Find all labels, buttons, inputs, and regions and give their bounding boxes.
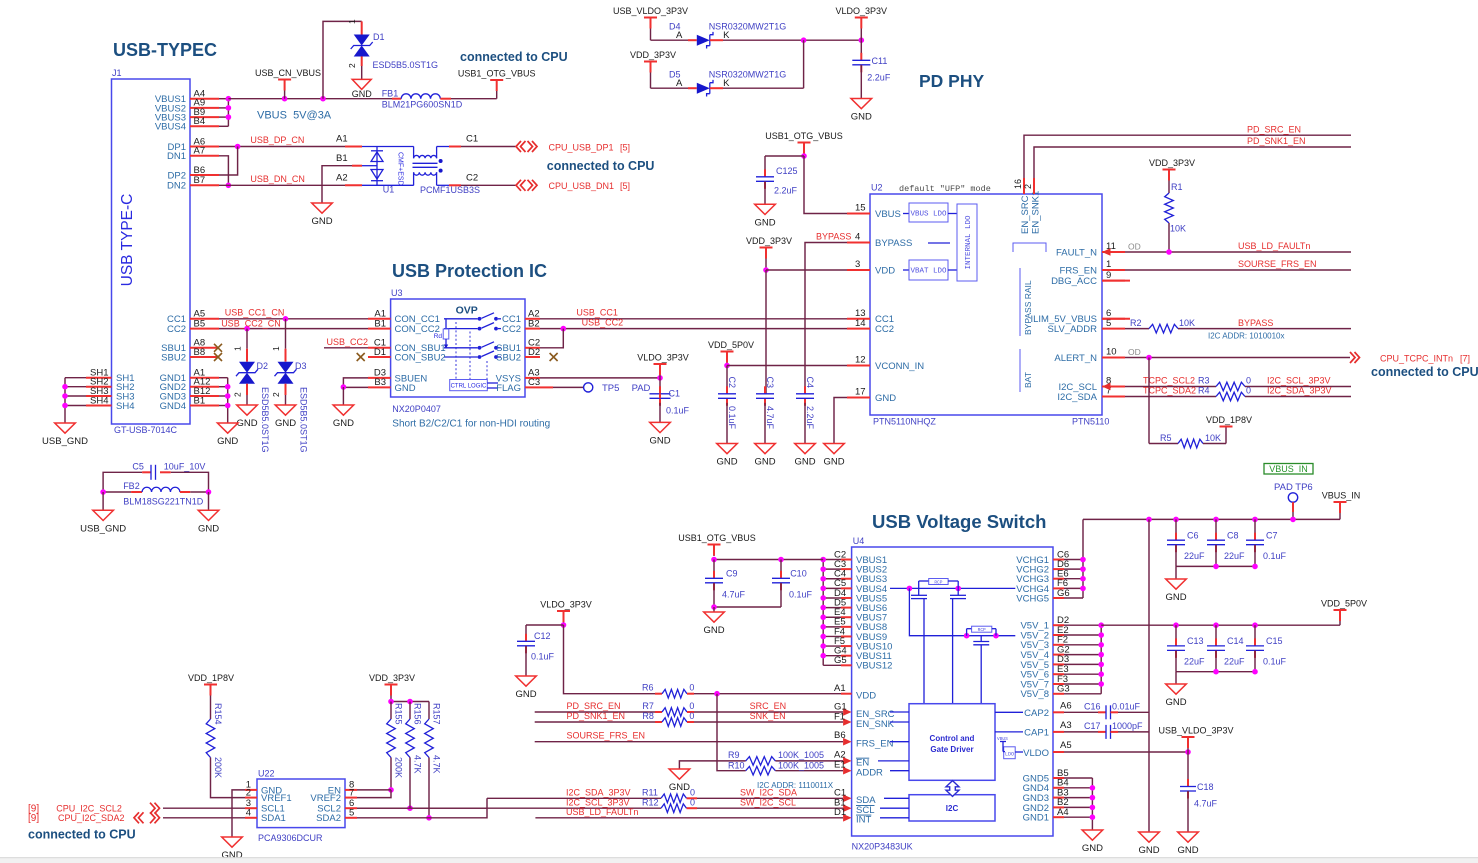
connector J1 body: [112, 68, 191, 435]
wire GND bus at connector: [219, 378, 231, 423]
U4 internal I2C block: [880, 795, 995, 821]
U3 pin A1 (CON_CC1): [368, 309, 440, 326]
wire D3 to ground: [271, 384, 286, 405]
svg-text:2.2uF: 2.2uF: [867, 73, 891, 83]
svg-text:4.7uF: 4.7uF: [765, 406, 775, 430]
svg-text:C125: C125: [776, 166, 798, 176]
U4 pin E2 (V5V_2): [1020, 625, 1068, 642]
svg-text:J1: J1: [112, 68, 122, 78]
svg-text:OVP: OVP: [456, 305, 478, 317]
svg-text:A6: A6: [1060, 701, 1072, 712]
svg-text:BYPASS: BYPASS: [1238, 318, 1273, 328]
svg-text:PCA9306DCUR: PCA9306DCUR: [258, 833, 323, 843]
svg-text:0.1uF: 0.1uF: [1263, 657, 1287, 667]
svg-text:CTRL LOGIC: CTRL LOGIC: [451, 384, 487, 390]
svg-text:14: 14: [855, 318, 866, 329]
resistor R1: [1165, 182, 1186, 252]
capacitor C10: [772, 560, 813, 608]
J1 pin A8 (SBU1): [161, 338, 219, 355]
offpage chevron CPU_TCPC_INTn: [1350, 352, 1470, 363]
svg-text:GND: GND: [716, 457, 737, 468]
svg-text:10: 10: [1106, 347, 1117, 358]
level shifter U22 body: [257, 769, 345, 844]
svg-text:I2C_SCL_3P3V: I2C_SCL_3P3V: [566, 797, 630, 807]
svg-text:1: 1: [347, 19, 357, 24]
svg-text:FRS_EN: FRS_EN: [1060, 265, 1098, 276]
svg-text:R9: R9: [728, 750, 740, 760]
U4 pin F2 (V5V_3): [1020, 635, 1068, 652]
svg-text:BAT: BAT: [1023, 372, 1033, 388]
svg-text:C9: C9: [726, 569, 738, 579]
svg-text:GT-USB-7014C: GT-USB-7014C: [114, 425, 178, 435]
svg-text:USB1_OTG_VBUS: USB1_OTG_VBUS: [678, 533, 756, 543]
svg-text:G6: G6: [1057, 588, 1070, 599]
svg-text:CC2: CC2: [502, 324, 521, 335]
wire TCPC_SDA2 with resistor R4: [1125, 386, 1351, 401]
svg-text:C7: C7: [1266, 531, 1278, 541]
offpage chevron SCL2: [150, 803, 160, 814]
label connected to CPU (bottom left): [28, 828, 136, 842]
svg-text:Control and: Control and: [930, 734, 975, 743]
svg-text:17: 17: [855, 387, 866, 398]
U3 pin B3 (GND): [368, 377, 416, 394]
wire D5 cathode join: [710, 40, 804, 89]
J1 pin B6 (DP2): [168, 165, 219, 182]
svg-text:SOURSE_FRS_EN: SOURSE_FRS_EN: [567, 730, 646, 740]
svg-text:GND: GND: [649, 435, 670, 446]
load switch U4 body: [852, 536, 1053, 852]
svg-text:USB_DP_CN: USB_DP_CN: [250, 135, 304, 145]
svg-text:USB-TYPEC: USB-TYPEC: [113, 40, 217, 60]
U4 internal control block: [878, 704, 1023, 781]
U4 pin E4 (VBUS7): [834, 607, 887, 624]
svg-text:RCP: RCP: [978, 627, 986, 633]
wire USB_CC2_CN: [219, 318, 368, 331]
ferrite bead FB1: [382, 89, 463, 110]
svg-text:CON_CC2: CON_CC2: [395, 324, 440, 335]
svg-text:R10: R10: [728, 761, 745, 771]
svg-text:VBUS12: VBUS12: [856, 661, 892, 672]
svg-text:CC2: CC2: [167, 324, 186, 335]
power tap VDD_3P3V left of U2: [746, 236, 792, 270]
schottky diode D4: [697, 22, 786, 49]
svg-text:PTN5110: PTN5110: [1072, 417, 1109, 427]
U3 pin D3 (SBUEN): [368, 368, 427, 385]
svg-text:GND: GND: [1082, 843, 1103, 854]
svg-text:R156: R156: [413, 703, 423, 725]
svg-text:USB1_OTG_VBUS: USB1_OTG_VBUS: [765, 131, 843, 141]
wire VBUS rail to FB1: [228, 96, 392, 102]
U2 EN_SRC EN_SNK1 labels: [1020, 191, 1042, 234]
ground below U22: [221, 837, 242, 861]
power tap VDD_5P0V right: [1321, 599, 1367, 626]
svg-text:D2: D2: [257, 361, 269, 371]
svg-text:A4: A4: [1057, 807, 1069, 818]
U4 pin C4 (VBUS3): [834, 569, 887, 586]
svg-text:I2C_SDA_3P3V: I2C_SDA_3P3V: [566, 788, 631, 798]
svg-text:VCHG5: VCHG5: [1016, 593, 1049, 604]
svg-text:C10: C10: [790, 569, 807, 579]
U4 pin A4 (GND1): [1023, 807, 1069, 824]
svg-text:0: 0: [1246, 386, 1251, 396]
svg-text:USB_CN_VBUS: USB_CN_VBUS: [255, 68, 321, 78]
capacitor C6: [1167, 519, 1205, 566]
title USB Voltage Switch: [872, 511, 1046, 532]
U2 pin 6 (ILIM_5V_VBUS): [1030, 308, 1125, 325]
svg-text:1: 1: [233, 346, 243, 351]
svg-text:GND: GND: [333, 418, 354, 429]
svg-text:EN_SNK: EN_SNK: [856, 719, 895, 730]
J1 pin B4 (VBUS4): [155, 116, 219, 133]
svg-text:connected to CPU: connected to CPU: [547, 159, 655, 173]
resistor R156: [406, 703, 423, 808]
resistor R2 and BYPASS net: [1125, 318, 1351, 341]
J1 pin SH2: [86, 377, 134, 394]
power tap VDD_1P8V right: [1206, 415, 1252, 427]
svg-text:OD: OD: [1128, 242, 1141, 252]
U2 pin 5 (SLV_ADDR): [1048, 318, 1125, 335]
svg-text:K: K: [723, 78, 730, 89]
wire CC1 to D3: [271, 319, 286, 362]
U22 pin 2 (VREF1): [245, 787, 292, 804]
svg-text:D1: D1: [834, 807, 846, 818]
resistor R155: [387, 703, 404, 793]
U3 pin A2 (CC1): [502, 309, 540, 326]
capacitor C14: [1207, 625, 1245, 672]
svg-text:CPU_USB_DN1: CPU_USB_DN1: [549, 181, 615, 191]
svg-text:VBUS LDO: VBUS LDO: [910, 211, 947, 219]
svg-text:B1: B1: [374, 318, 386, 329]
svg-text:ESD5B5.0ST1G: ESD5B5.0ST1G: [260, 387, 270, 453]
svg-text:U4: U4: [853, 536, 865, 546]
U4 pin C6 (VCHG1): [1016, 549, 1069, 566]
resistor R157: [425, 703, 442, 821]
J1 pin SH1: [86, 368, 134, 385]
wire VLDO node to C12 and R6: [526, 622, 655, 694]
svg-text:VDD_3P3V: VDD_3P3V: [630, 50, 676, 60]
schottky diode D5: [697, 70, 786, 97]
svg-text:B2: B2: [528, 318, 540, 329]
U4 pin E3 (V5V_6): [1020, 664, 1068, 681]
svg-text:A1: A1: [336, 134, 348, 145]
wire D4 cathode to VLDO_3P3V: [710, 30, 864, 43]
power tap VLDO_3P3V at C12: [540, 600, 592, 626]
no-connect SBU1 stub: [214, 344, 222, 352]
wire VBUS_IN rail: [1083, 517, 1340, 523]
U4 pin G3 (V5V_8): [1020, 684, 1069, 701]
no-connect SBU2 stub: [214, 353, 222, 361]
svg-text:VCONN_IN: VCONN_IN: [875, 361, 924, 372]
TVS diode D3: [275, 361, 309, 453]
svg-text:SH4: SH4: [90, 395, 108, 406]
svg-text:0: 0: [689, 683, 694, 693]
wire USB_LD_FAULTn row: [535, 807, 843, 818]
wire USB_LD_FAULTn from FAULT_N: [1102, 241, 1351, 256]
power tap USB_CN_VBUS: [255, 68, 321, 99]
svg-text:ESD5B5.0ST1G: ESD5B5.0ST1G: [373, 60, 439, 70]
svg-text:CPU_TCPC_INTn: CPU_TCPC_INTn: [1380, 353, 1453, 363]
U2 pin 9 (DBG_ACC): [1051, 270, 1125, 287]
svg-text:BYPASS: BYPASS: [875, 238, 912, 249]
svg-text:C17: C17: [1084, 721, 1101, 731]
wire U1 C1 output CPU_USB_DP1: [449, 134, 516, 147]
U4 pin C1 (SDA): [834, 788, 876, 807]
svg-text:[5]: [5]: [620, 181, 630, 191]
U2 pin 10 (ALERT_N): [1054, 347, 1125, 364]
wire VBUS bus at connector: [219, 96, 231, 126]
power tap VLDO_3P3V above C11: [836, 6, 888, 40]
wire U22 GND pin to ground: [232, 790, 245, 837]
power tap VDD_3P3V at D5: [630, 50, 676, 88]
U2 pin 13 (CC1): [847, 308, 894, 325]
wire C6 C8 C7 commons: [1176, 564, 1258, 579]
svg-text:NX20P0407: NX20P0407: [392, 404, 441, 414]
capacitor C125: [756, 156, 798, 204]
svg-text:VBUS4: VBUS4: [155, 122, 186, 133]
wire to D4 anode: [651, 22, 697, 42]
U4 pin C5 (VBUS4): [834, 578, 887, 595]
wire VDD net to pin 3 and C3: [763, 267, 847, 393]
ground below U4: [1082, 830, 1103, 854]
J1 pin SH4: [86, 395, 134, 412]
ground below U3: [333, 405, 354, 429]
capacitor C5: [132, 462, 205, 480]
wire to D5 anode: [651, 70, 697, 90]
ground below C4: [794, 444, 815, 468]
svg-text:PD_SRC_EN: PD_SRC_EN: [1247, 124, 1301, 134]
svg-text:B7: B7: [194, 175, 206, 186]
svg-text:C5: C5: [132, 462, 144, 472]
U4 internal FET pair: [911, 588, 966, 703]
wire PD_SRC_EN row with resistor R7: [535, 701, 843, 716]
svg-text:ADDR: ADDR: [856, 768, 883, 779]
capacitor C18: [1180, 752, 1218, 832]
svg-text:F1: F1: [834, 711, 845, 722]
svg-text:CMF+ESD: CMF+ESD: [397, 152, 404, 186]
svg-text:C14: C14: [1227, 636, 1244, 646]
wire CON_SBU1 USB_CC2 stub: [324, 337, 368, 348]
svg-text:CC2: CC2: [875, 324, 894, 335]
U3 pin D1 (CON_SBU2): [368, 347, 446, 364]
wire DP2 to DP1 join: [219, 147, 238, 176]
U4 pin B3 (GND3): [1023, 787, 1069, 804]
svg-text:4: 4: [855, 232, 860, 243]
svg-text:R155: R155: [394, 703, 404, 725]
U2 internal INTERNAL LDO: [957, 204, 977, 281]
svg-text:C8: C8: [1227, 531, 1239, 541]
U2 bypass rail bracket: [1013, 243, 1046, 392]
offpage chevrons CPU_USB_DN1: [516, 180, 630, 191]
svg-text:PTN5110NHQZ: PTN5110NHQZ: [873, 417, 936, 427]
svg-text:V5V_8: V5V_8: [1020, 689, 1049, 700]
svg-text:VREF2: VREF2: [310, 793, 341, 804]
svg-text:DN2: DN2: [167, 181, 186, 192]
U2 pin 3 (VDD): [847, 259, 895, 276]
U4 pin F4 (VBUS9): [834, 626, 887, 643]
wire TCPC_SCL2 with resistor R3: [1102, 376, 1351, 391]
svg-text:B1: B1: [194, 395, 206, 406]
svg-text:A2: A2: [336, 173, 348, 184]
U3 pin B2 (CC2): [502, 318, 540, 335]
wire DN1 to DN2 join: [219, 156, 231, 188]
U2 pin 8 (I2C_SCL): [1058, 376, 1125, 393]
svg-text:B6: B6: [834, 730, 846, 741]
U3 pin D2 (SBU2): [496, 347, 540, 364]
U2 pin 14 (CC2): [847, 318, 894, 335]
svg-text:ALERT_N: ALERT_N: [1054, 353, 1097, 364]
svg-text:C16: C16: [1084, 702, 1101, 712]
U4 pin B2 (GND2): [1023, 797, 1069, 814]
J1 pin A4 (VBUS1): [155, 89, 219, 106]
svg-text:B5: B5: [194, 318, 206, 329]
svg-text:GND: GND: [794, 457, 815, 468]
svg-text:0.1uF: 0.1uF: [531, 652, 555, 662]
svg-text:EN_SRC: EN_SRC: [1020, 195, 1031, 234]
U3 pin C3 (FLAG): [496, 377, 540, 394]
svg-text:DBG_ACC: DBG_ACC: [1051, 276, 1097, 287]
wire to TVS D1: [323, 19, 362, 99]
stub DBG_ACC: [1102, 280, 1130, 282]
wire C9 C10 commons to ground: [711, 604, 781, 612]
wire VSYS node: [540, 375, 663, 393]
svg-text:USB_LD_FAULTn: USB_LD_FAULTn: [566, 807, 638, 817]
svg-text:GND: GND: [703, 625, 724, 636]
svg-text:USB_GND: USB_GND: [80, 523, 126, 534]
U2 pin 15 (VBUS): [847, 203, 901, 220]
svg-text:R2: R2: [1130, 318, 1142, 328]
wire SBU1 short to CC2: [540, 329, 563, 348]
ground below C3: [754, 444, 775, 468]
resistor R154: [206, 703, 245, 798]
svg-text:D3: D3: [295, 361, 307, 371]
svg-text:B4: B4: [194, 116, 206, 127]
svg-text:15: 15: [855, 203, 866, 214]
J1 pin A6 (DP1): [168, 136, 219, 153]
svg-text:GND: GND: [875, 393, 896, 404]
svg-text:2: 2: [347, 63, 357, 68]
U4 pin D2 (V5V_1): [1020, 615, 1069, 632]
U22 pin 8 (EN): [328, 780, 357, 797]
svg-text:VBAT LDO: VBAT LDO: [910, 268, 947, 276]
svg-text:FB2: FB2: [123, 481, 140, 491]
svg-text:TCPC_SDA2: TCPC_SDA2: [1143, 386, 1196, 396]
wire shield bus: [62, 378, 86, 423]
wire DN to U1: [336, 173, 362, 186]
U3 pin A3 (VSYS): [496, 368, 540, 385]
svg-text:VDD_3P3V: VDD_3P3V: [1149, 158, 1195, 168]
svg-text:USB_CC2_CN: USB_CC2_CN: [221, 318, 281, 328]
protection IC U3 body: [391, 288, 551, 430]
J1 pin A12 (GND2): [160, 377, 219, 394]
svg-text:200K: 200K: [213, 757, 223, 778]
U3 control dotted lines: [456, 322, 487, 380]
svg-text:GND: GND: [198, 523, 219, 534]
U2 internal VBUS LDO: [903, 203, 957, 222]
svg-text:GND: GND: [754, 457, 775, 468]
capacitor C13: [1167, 625, 1205, 672]
wire SOURSE_FRS_EN from FRS_EN: [1125, 259, 1351, 270]
svg-text:A7: A7: [194, 146, 206, 157]
resistor R10 to VDD: [717, 694, 843, 775]
U4 pin E5 (VBUS8): [834, 617, 887, 634]
wire U1 B1 pin to ground: [322, 153, 362, 203]
wire CPU_I2C_SCL2 row: [28, 803, 245, 814]
svg-text:0.1uF: 0.1uF: [789, 590, 813, 600]
svg-text:TP5: TP5: [602, 383, 619, 394]
svg-text:USB_CC2: USB_CC2: [582, 317, 624, 327]
svg-text:B3: B3: [374, 377, 386, 388]
ground below U2: [823, 444, 844, 468]
resistor R9 to ground: [679, 750, 843, 769]
svg-text:0.1uF: 0.1uF: [727, 406, 737, 430]
svg-text:I2C_SDA: I2C_SDA: [1057, 392, 1097, 403]
svg-text:VBUS_IN: VBUS_IN: [1269, 464, 1308, 474]
svg-text:GND: GND: [515, 689, 536, 700]
svg-text:VDD: VDD: [875, 265, 895, 276]
svg-text:USB_CC2: USB_CC2: [327, 337, 369, 347]
U2 internal VBAT LDO: [903, 260, 957, 280]
wire VBUS input bus: [820, 557, 841, 666]
svg-text:Gate Driver: Gate Driver: [930, 745, 973, 754]
wire pull-up rail U22: [388, 699, 429, 719]
svg-text:9: 9: [1106, 270, 1111, 281]
svg-text:VLDO_3P3V: VLDO_3P3V: [540, 600, 592, 610]
ground below cap return rail: [1138, 832, 1159, 856]
capacitor C12: [517, 631, 555, 676]
svg-text:BLM18SG221TN1D: BLM18SG221TN1D: [123, 497, 204, 507]
U3 pin C2 (SBU1): [496, 338, 540, 355]
svg-text:OD: OD: [1128, 347, 1141, 357]
title PD PHY: [919, 71, 984, 91]
ground below U1: [311, 203, 332, 227]
svg-text:SH4: SH4: [116, 401, 134, 412]
wire OTG VBUS rail to bus: [711, 557, 823, 563]
J1 pin SH3: [86, 386, 134, 403]
U4 pin B1 (SCL): [834, 797, 874, 816]
svg-text:U3: U3: [391, 288, 403, 298]
svg-text:22uF: 22uF: [1184, 551, 1205, 561]
ground below C13 group: [1165, 684, 1186, 708]
svg-text:5: 5: [349, 808, 354, 819]
ground below C1: [649, 422, 670, 446]
svg-text:GND: GND: [669, 782, 690, 793]
capacitor C9: [705, 560, 746, 608]
wire U22 EN VREF2 pull-up: [357, 790, 391, 798]
ground below C12: [515, 676, 536, 700]
svg-text:C1: C1: [466, 134, 478, 145]
U4 pin F3 (V5V_7): [1020, 674, 1068, 691]
wire C13 C14 C15 commons: [1176, 669, 1258, 684]
svg-text:R154: R154: [213, 703, 223, 725]
U4 internal VBUS4 switch line: [890, 586, 1015, 592]
svg-text:VDD: VDD: [856, 691, 876, 702]
svg-text:G3: G3: [1057, 684, 1070, 695]
svg-text:R12: R12: [642, 797, 659, 807]
U4 pin A5 (VLDO): [1023, 740, 1191, 759]
svg-text:C2: C2: [466, 173, 478, 184]
svg-text:USB_GND: USB_GND: [42, 436, 88, 447]
svg-text:C18: C18: [1197, 782, 1214, 792]
svg-text:A: A: [676, 30, 683, 41]
power tap USB1_OTG_VBUS at U4: [678, 533, 756, 556]
svg-text:200K: 200K: [394, 757, 404, 778]
U4 pin D6 (VCHG2): [1016, 559, 1069, 576]
svg-text:VDD_5P0V: VDD_5P0V: [708, 340, 754, 350]
title USB-TYPEC: [113, 40, 217, 60]
svg-text:connected to CPU: connected to CPU: [460, 50, 568, 64]
ground USB_GND at connector: [42, 423, 88, 447]
svg-text:GND: GND: [1165, 592, 1186, 603]
